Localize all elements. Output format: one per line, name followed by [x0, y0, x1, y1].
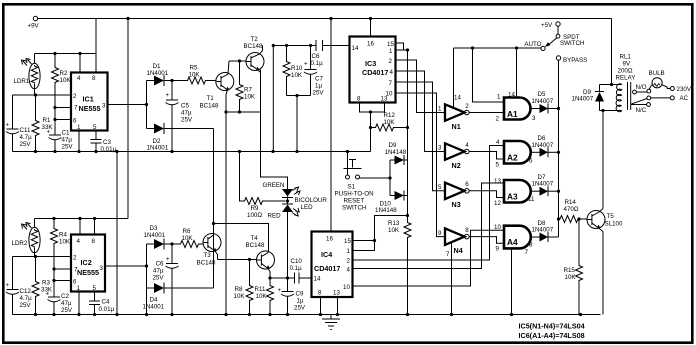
svg-text:N1: N1	[452, 122, 461, 131]
resistor R7 10K	[236, 61, 256, 112]
svg-text:1N4001: 1N4001	[147, 145, 169, 152]
svg-text:16: 16	[326, 236, 333, 243]
wire IC3 ground to bus	[369, 126, 372, 152]
svg-text:R8: R8	[235, 286, 243, 293]
wire IC2 pin2 line	[13, 255, 72, 258]
svg-text:1N4148: 1N4148	[375, 207, 397, 214]
wire bottom ground bus	[13, 313, 601, 316]
wire IC2 pin4 stub	[79, 219, 81, 235]
wire IC2 pin1 ground stub	[78, 292, 80, 315]
wire IC1 pin7 line	[55, 107, 71, 109]
svg-text:9: 9	[496, 246, 500, 253]
svg-text:IC3: IC3	[365, 59, 376, 68]
svg-text:C6: C6	[312, 53, 320, 60]
capacitor C4 0.01u	[89, 292, 115, 315]
svg-text:R7: R7	[244, 87, 252, 94]
svg-text:25V: 25V	[152, 275, 164, 282]
svg-text:BULB: BULB	[649, 70, 665, 77]
svg-text:4: 4	[77, 238, 81, 245]
svg-text:10K: 10K	[256, 293, 268, 300]
wire R4 bottom to C2 column	[52, 247, 55, 297]
svg-text:25V: 25V	[62, 144, 74, 151]
svg-text:100Ω: 100Ω	[247, 212, 262, 219]
svg-text:4.7µ: 4.7µ	[20, 134, 33, 141]
svg-text:C1: C1	[62, 130, 70, 137]
svg-text:A1: A1	[507, 109, 518, 119]
svg-text:R12: R12	[384, 112, 396, 119]
capacitor C6 0.1u coupling	[311, 40, 324, 67]
svg-text:7: 7	[389, 80, 393, 87]
svg-text:7: 7	[74, 105, 78, 112]
inverter N1 74LS04	[438, 95, 469, 132]
svg-text:T2: T2	[251, 36, 259, 43]
switch SPDT auto/bypass	[524, 34, 584, 50]
svg-text:C7: C7	[315, 76, 323, 83]
svg-text:7: 7	[525, 249, 529, 256]
wire N4 out to A4	[469, 237, 504, 253]
note IC5 IC6	[519, 322, 585, 341]
wire N4 pin7 ground	[451, 243, 453, 315]
svg-text:1µ: 1µ	[297, 298, 304, 305]
transistor T5 SL100	[587, 209, 623, 232]
capacitor C3 0.01u	[91, 131, 117, 154]
svg-text:R14: R14	[565, 199, 577, 206]
wire A4 pin7 ground	[511, 248, 513, 314]
wire IC2 supply bus	[35, 217, 129, 220]
svg-text:N3: N3	[452, 200, 461, 209]
svg-text:5: 5	[496, 162, 500, 169]
svg-text:BYPASS: BYPASS	[563, 57, 587, 64]
svg-text:10K: 10K	[189, 72, 201, 79]
svg-text:A2: A2	[507, 153, 518, 163]
wire T5 collector rise	[602, 111, 604, 209]
wire T2 emitter node to green LED	[261, 112, 288, 189]
svg-text:1: 1	[77, 124, 81, 131]
inverter N2	[438, 142, 469, 170]
svg-text:IC4: IC4	[321, 250, 332, 259]
svg-text:R9: R9	[251, 205, 259, 212]
svg-text:10K: 10K	[384, 119, 396, 126]
wire +9V drop to IC1 supply bus	[95, 19, 97, 54]
wire IC4 pin4 to A3 input	[353, 183, 505, 269]
svg-text:1N4001: 1N4001	[147, 70, 169, 77]
wire T1 collector to T2 base	[229, 59, 247, 62]
switch S1 push-to-on	[335, 152, 391, 212]
svg-text:+9V: +9V	[28, 23, 40, 30]
svg-text:A3: A3	[507, 192, 518, 202]
node LED centre	[286, 197, 289, 205]
svg-text:LDR2: LDR2	[12, 240, 28, 247]
svg-text:47µ: 47µ	[181, 110, 192, 117]
wire IC3 pin16 stub to +9V	[370, 19, 372, 37]
svg-text:N/C: N/C	[636, 107, 647, 114]
svg-text:2: 2	[496, 116, 500, 123]
capacitor C11 4.7u	[6, 95, 33, 152]
svg-text:1: 1	[438, 106, 442, 113]
AND gate A4	[494, 224, 533, 256]
svg-text:N4: N4	[454, 246, 463, 255]
svg-text:1µ: 1µ	[315, 83, 322, 90]
node D3-R6-C6b	[170, 242, 173, 245]
wire IC4 pins 8,13 ground stubs	[321, 297, 338, 315]
svg-text:10: 10	[494, 224, 501, 231]
svg-text:NE555: NE555	[79, 104, 101, 113]
diode D9b 1N4007 freewheel	[572, 85, 605, 111]
wire IC4 pin10 to A4 input	[353, 230, 505, 286]
transistor T2 BC148	[244, 36, 265, 73]
svg-text:25V: 25V	[294, 305, 306, 312]
svg-text:1N4007: 1N4007	[532, 227, 554, 234]
svg-text:13: 13	[494, 178, 501, 185]
wire IC4 pin2 to A2 input	[353, 146, 505, 261]
svg-text:IC1: IC1	[83, 95, 94, 104]
diode D1 1N4001	[147, 63, 173, 86]
wire R10/C7 bottom tie	[287, 94, 311, 152]
diode D8 1N4007	[531, 220, 559, 242]
svg-text:15: 15	[387, 41, 394, 48]
wire T2 collector node drop to ground bus	[272, 46, 274, 152]
svg-text:+: +	[47, 129, 51, 136]
AND gate A2	[496, 139, 533, 165]
svg-text:1N4007: 1N4007	[532, 181, 554, 188]
capacitor C6 47u lower	[152, 244, 178, 315]
wire IC3 pins 8,13 ground stubs	[360, 103, 385, 128]
op IC1 NE555 box	[71, 73, 108, 132]
svg-text:5: 5	[93, 124, 97, 131]
svg-text:PUSH-TO-ON: PUSH-TO-ON	[335, 191, 374, 198]
svg-text:NE555: NE555	[77, 268, 99, 277]
wire IC2 pin7 line	[54, 268, 71, 270]
wire T2 emitter drop	[260, 70, 262, 113]
diode D3 1N4001	[144, 225, 173, 250]
wire IC3 pin15 jog	[396, 43, 404, 50]
svg-text:C12: C12	[20, 288, 32, 295]
svg-text:1N4007: 1N4007	[532, 142, 554, 149]
wire IC3 pin2 to N1	[396, 60, 446, 113]
wire IC4 pin15 line	[353, 239, 377, 242]
svg-text:LDR1: LDR1	[14, 78, 30, 85]
diode D9 1N4148	[385, 142, 408, 165]
svg-text:C2: C2	[61, 293, 69, 300]
svg-text:2: 2	[73, 93, 77, 100]
svg-text:R4: R4	[59, 232, 67, 239]
svg-text:10K: 10K	[244, 94, 256, 101]
svg-text:5: 5	[438, 184, 442, 191]
svg-text:1N4001: 1N4001	[144, 232, 166, 239]
svg-text:8: 8	[529, 242, 533, 249]
wire relay feed from +9V	[610, 19, 613, 87]
svg-text:4: 4	[390, 69, 394, 76]
diode D5 1N4007	[531, 91, 559, 114]
+5V terminal	[541, 22, 560, 38]
capacitor C5 47u	[166, 81, 193, 152]
svg-text:N2: N2	[452, 161, 461, 170]
wire IC1 pin8 stub	[95, 54, 97, 73]
svg-text:T3: T3	[204, 252, 212, 259]
svg-text:T1: T1	[207, 95, 215, 102]
svg-text:R15: R15	[564, 267, 576, 274]
svg-text:1N4148: 1N4148	[385, 149, 407, 156]
svg-text:25V: 25V	[20, 141, 32, 148]
svg-text:C11: C11	[20, 127, 31, 134]
svg-text:D5: D5	[538, 91, 546, 98]
diode D6 1N4007	[531, 135, 559, 157]
wire D10 anode rise	[389, 178, 391, 196]
inverter N3	[438, 181, 469, 209]
resistor R11 10K	[255, 276, 274, 314]
svg-text:+5V: +5V	[541, 22, 553, 29]
svg-text:8: 8	[465, 227, 469, 234]
resistor R9 100ohm	[240, 152, 286, 220]
svg-text:8: 8	[92, 238, 96, 245]
resistor R6 10K	[172, 228, 203, 248]
resistor R2 10K	[52, 54, 72, 86]
svg-text:470Ω: 470Ω	[564, 206, 579, 213]
wire IC4 pin15/1 to reset line	[375, 216, 408, 241]
svg-text:0.01µ: 0.01µ	[99, 306, 115, 313]
svg-text:2: 2	[73, 255, 77, 262]
wire clock line T2 collector to IC3 pin14	[272, 44, 350, 47]
svg-text:4.7µ: 4.7µ	[20, 295, 33, 302]
transistor T1 BC148	[200, 61, 234, 112]
svg-text:8: 8	[357, 96, 361, 103]
svg-text:10K: 10K	[59, 239, 71, 246]
svg-text:R11: R11	[255, 286, 266, 293]
wire IC3 pin7 to N3	[396, 82, 446, 191]
resistor R12 10K	[371, 112, 410, 131]
svg-text:230V: 230V	[677, 86, 692, 93]
svg-text:GREEN: GREEN	[263, 182, 285, 189]
svg-text:1: 1	[497, 94, 501, 101]
svg-text:+: +	[304, 61, 308, 68]
svg-text:3: 3	[102, 103, 106, 110]
capacitor C12 4.7u	[6, 257, 33, 315]
bulb	[649, 70, 668, 89]
wire IC1 pin1 ground stub	[78, 131, 80, 152]
svg-text:47µ: 47µ	[61, 300, 72, 307]
svg-text:T5: T5	[607, 213, 615, 220]
svg-text:14: 14	[454, 95, 461, 102]
IC4 CD4017 box	[312, 232, 353, 298]
svg-text:T4: T4	[251, 235, 259, 242]
+9V supply terminal	[28, 16, 40, 29]
svg-text:RL1: RL1	[620, 54, 632, 61]
svg-text:CD4017: CD4017	[362, 68, 388, 77]
wire T1 emitter to bottom ground bus	[225, 112, 227, 315]
capacitor C9 1u	[278, 278, 306, 315]
wire N3 out to A3	[469, 191, 504, 207]
wire IC2 pin8 stub	[94, 219, 96, 235]
resistor R15 10K	[564, 219, 583, 315]
svg-text:+: +	[278, 287, 282, 294]
wire T5 emitter drop	[602, 232, 604, 315]
AND gate A3	[494, 178, 535, 203]
svg-text:AC: AC	[680, 95, 689, 102]
svg-text:10K: 10K	[60, 77, 72, 84]
LED bicolour green	[263, 182, 301, 198]
svg-text:8: 8	[318, 290, 322, 297]
svg-text:10K: 10K	[291, 72, 303, 79]
svg-text:RELAY: RELAY	[616, 75, 636, 82]
svg-text:10K: 10K	[234, 293, 246, 300]
svg-text:RED: RED	[268, 213, 282, 220]
svg-text:C6: C6	[156, 261, 164, 268]
LDR1	[14, 54, 41, 96]
svg-text:4: 4	[465, 142, 469, 149]
wire reset column x407	[407, 50, 409, 216]
wire IC1 pin2 line	[13, 93, 72, 96]
svg-text:C10: C10	[291, 258, 303, 265]
svg-text:1: 1	[77, 285, 81, 292]
wire A1 pin1 feed	[473, 48, 505, 102]
relay RL1 coil	[600, 54, 636, 113]
svg-text:16: 16	[367, 41, 374, 48]
svg-text:S1: S1	[348, 184, 356, 191]
wire ground link between halves	[116, 152, 118, 315]
svg-text:1N4007: 1N4007	[572, 96, 594, 103]
capacitor C1 47u	[47, 129, 74, 152]
wire A1 pin14 feed	[508, 48, 517, 99]
wire IC1 supply bus	[35, 52, 97, 55]
svg-text:D4: D4	[150, 297, 158, 304]
resistor R14 470ohm	[559, 199, 588, 223]
wire diode output bus	[557, 60, 560, 237]
svg-text:+: +	[166, 256, 170, 263]
capacitor C7 1u	[304, 46, 324, 97]
svg-text:SL100: SL100	[605, 221, 623, 228]
svg-text:14: 14	[352, 45, 359, 52]
svg-text:LED: LED	[301, 204, 314, 211]
svg-text:2: 2	[465, 103, 469, 110]
svg-text:D3: D3	[150, 225, 158, 232]
svg-text:AUTO: AUTO	[524, 41, 541, 48]
svg-text:BICOLOUR: BICOLOUR	[295, 197, 328, 204]
terminal AC	[670, 95, 688, 102]
svg-text:4: 4	[496, 139, 500, 146]
transistor T4 BC148	[246, 235, 275, 278]
relay contact N/C	[631, 103, 650, 114]
svg-text:3: 3	[100, 265, 104, 272]
diode D10 1N4148	[375, 191, 408, 215]
wire IC3 pin10 to N4	[396, 93, 446, 237]
svg-text:R3: R3	[42, 280, 50, 287]
svg-text:4: 4	[77, 75, 81, 82]
svg-text:BC148: BC148	[200, 103, 219, 110]
svg-text:1: 1	[389, 48, 393, 55]
wire red LED cathode drop	[287, 212, 289, 278]
svg-text:D9: D9	[389, 142, 397, 149]
wire IC4 pin1 jog	[353, 241, 375, 251]
transistor T3 BC148	[197, 224, 222, 267]
wire C10 line to IC4 pin14	[270, 276, 312, 279]
wire N1 out to A1	[469, 113, 504, 123]
wire N2 out to A2	[469, 152, 504, 169]
wire T3 emitter to T4 base	[218, 258, 257, 261]
svg-text:10K: 10K	[182, 235, 194, 242]
svg-text:IC5(N1-N4)=74LS04: IC5(N1-N4)=74LS04	[519, 322, 585, 331]
svg-text:15: 15	[344, 238, 351, 245]
svg-text:2: 2	[389, 58, 393, 65]
svg-text:10: 10	[343, 284, 350, 291]
LED bicolour red	[268, 197, 328, 220]
svg-text:+: +	[6, 282, 10, 289]
svg-text:SWITCH: SWITCH	[560, 40, 584, 47]
svg-text:R13: R13	[388, 220, 400, 227]
svg-text:13: 13	[333, 290, 340, 297]
svg-text:10K: 10K	[388, 227, 400, 234]
svg-text:BC148: BC148	[244, 43, 263, 50]
svg-text:R6: R6	[183, 228, 191, 235]
svg-text:47µ: 47µ	[62, 137, 73, 144]
wire D9 anode drop	[388, 160, 391, 180]
relay pole and lever	[632, 96, 671, 104]
resistor R13 10K	[388, 214, 411, 315]
wire R2 bottom to C1 column	[53, 86, 56, 132]
svg-text:200Ω: 200Ω	[618, 68, 633, 75]
svg-text:6: 6	[465, 181, 469, 188]
svg-text:11: 11	[528, 196, 535, 203]
svg-text:CD4017: CD4017	[314, 264, 340, 273]
svg-text:C3: C3	[103, 139, 111, 146]
relay contact N/O	[633, 84, 651, 94]
wire IC1 pin3 output	[108, 81, 149, 129]
LDR2	[12, 219, 41, 257]
capacitor C2 47u	[46, 291, 73, 315]
svg-text:RESET: RESET	[344, 198, 365, 205]
diode D2 1N4001	[147, 123, 214, 152]
svg-text:BC148: BC148	[246, 242, 265, 249]
svg-text:2: 2	[347, 258, 351, 265]
svg-text:9V: 9V	[623, 61, 631, 68]
wire IC1 pin4 stub	[79, 54, 81, 73]
wire IC2 pin6 line	[54, 280, 71, 282]
terminal 230V	[667, 86, 692, 93]
svg-text:7: 7	[446, 251, 450, 258]
svg-text:13: 13	[381, 96, 388, 103]
capacitor C10 0.1u	[290, 258, 303, 284]
wire N1 pin14 from +5V line	[453, 48, 455, 108]
AND gate A1 74LS08	[504, 98, 536, 123]
svg-text:IC2: IC2	[81, 258, 92, 267]
inverter N4	[438, 227, 469, 258]
svg-text:D1: D1	[153, 63, 161, 70]
diode D7 1N4007	[531, 174, 559, 196]
svg-text:SWITCH: SWITCH	[342, 205, 366, 212]
resistor R5 10K	[172, 65, 217, 85]
svg-text:14: 14	[314, 276, 321, 283]
wire top ground bus	[13, 150, 371, 153]
IC3 CD4017 box	[350, 37, 396, 103]
wire emitter line T1-T2	[224, 110, 260, 113]
resistor R4 10K	[51, 219, 71, 247]
svg-text:47µ: 47µ	[153, 268, 164, 275]
svg-text:C5: C5	[181, 103, 189, 110]
BYPASS terminal	[556, 56, 587, 64]
ground symbol	[322, 315, 340, 330]
svg-text:3: 3	[438, 145, 442, 152]
wire +9V rail	[38, 17, 612, 20]
svg-text:A4: A4	[507, 237, 518, 247]
svg-text:5: 5	[93, 285, 97, 292]
svg-text:1N4001: 1N4001	[143, 304, 165, 311]
resistor R10 10K	[283, 46, 303, 96]
svg-text:25V: 25V	[181, 117, 193, 124]
wire +5V auto line	[454, 46, 541, 49]
wire IC3 pin1 line	[396, 48, 410, 51]
svg-text:25V: 25V	[313, 90, 325, 97]
resistor R3 33K	[32, 257, 53, 315]
svg-text:R5: R5	[190, 65, 198, 72]
